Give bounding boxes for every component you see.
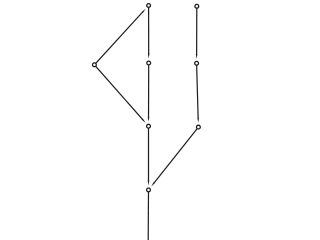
node A: [147, 4, 151, 8]
node H: [147, 188, 151, 192]
arrowhead G-H: [151, 182, 155, 187]
node D: [147, 61, 151, 65]
arrowhead F-H: [148, 180, 150, 185]
arrowhead E-G: [197, 118, 199, 123]
wire G-H (edge G to H): [154, 127, 198, 182]
wire E-G (edge E to G): [197, 63, 199, 117]
node G: [197, 125, 201, 129]
arrowhead D-F: [148, 117, 150, 122]
wire C-A (edge C to A): [94, 13, 142, 65]
node F: [147, 124, 151, 128]
arrowhead C-A: [142, 9, 146, 13]
wire H-bottom (edge H to node below canvas): [147, 190, 149, 240]
arrowhead A-D: [148, 54, 150, 59]
arrowhead C-F: [142, 119, 146, 123]
wire C-F (edge C to F): [94, 65, 142, 119]
wire F-H (edge F to H): [148, 126, 150, 180]
node B: [195, 4, 199, 8]
arrowhead B-E: [196, 54, 198, 59]
wire B-E (edge B to E): [196, 6, 198, 54]
wire A-D (edge A to D): [148, 6, 150, 54]
node C: [93, 63, 97, 67]
wire D-F (edge D to F): [148, 63, 150, 117]
node E: [195, 61, 199, 65]
